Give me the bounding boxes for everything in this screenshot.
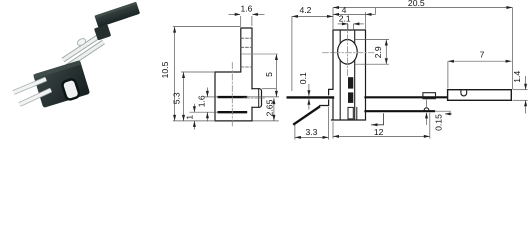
- dim 2.9: [385, 40, 387, 65]
- svg-text:20.5: 20.5: [408, 0, 425, 8]
- 3.3 exts: [294, 125, 296, 140]
- ext boss top right: [262, 88, 277, 90]
- slot inner wall right: [354, 30, 356, 120]
- dim line 5.3: [183, 72, 185, 120]
- inner wall segment lower right: [356, 107, 358, 119]
- ext x333 top: [332, 8, 334, 30]
- svg-text:0.1: 0.1: [298, 72, 308, 84]
- ext pin2 left: [190, 111, 219, 113]
- photo: lead wire upper: [63, 36, 100, 61]
- 12 exts: [332, 122, 334, 139]
- svg-text:12: 12: [374, 127, 384, 137]
- boss inner edge: [258, 89, 260, 108]
- right view arrows: [292, 6, 527, 139]
- 2.9 exts: [354, 39, 389, 41]
- boss center line: [244, 97, 267, 99]
- photo: black connector cap: [90, 2, 144, 41]
- photo: pin lower-left 1: [14, 79, 47, 93]
- photo: crimp ring on lead: [76, 37, 87, 47]
- dim 2.1 segs: [338, 23, 348, 25]
- 0.15 ext lead2 top right: [435, 110, 452, 112]
- ext body bottom right: [253, 120, 279, 122]
- svg-text:5: 5: [264, 72, 274, 77]
- dim 3.3: [295, 136, 329, 138]
- dim 1.6 top segs: [229, 13, 241, 15]
- middle view dim texts: [160, 4, 274, 120]
- horizontal center line: [323, 52, 375, 54]
- svg-text:5.3: 5.3: [171, 92, 181, 104]
- 1.4 exts: [513, 89, 528, 91]
- insert bar bottom section (outlined): [348, 107, 353, 119]
- end terminal bar: [448, 90, 512, 101]
- right view dim texts: [298, 0, 522, 137]
- step leader at body bottom: [372, 114, 384, 125]
- 2.1 exts: [347, 24, 349, 31]
- middle view dimensions: [173, 14, 279, 129]
- dim 12: [333, 135, 430, 137]
- 0.15 leader: [445, 113, 452, 115]
- svg-text:2.9: 2.9: [373, 46, 383, 58]
- notch in terminal bar: [461, 90, 467, 96]
- dim 1 segs: [193, 104, 195, 112]
- svg-text:3.3: 3.3: [306, 127, 318, 137]
- ext x447.9 for 7: [447, 61, 449, 88]
- photo: lead wire lower: [67, 42, 104, 67]
- dark insert bar: [348, 77, 353, 103]
- svg-text:1.4: 1.4: [512, 71, 522, 83]
- photo: slot hole in body: [61, 78, 80, 100]
- photo: pin lower-left 2: [20, 90, 52, 105]
- lead left stub: [288, 96, 333, 98]
- ext pin1 left: [204, 96, 218, 98]
- body outline: [215, 28, 252, 121]
- dim 1.6 segs: [206, 88, 208, 97]
- boss bump right: [252, 89, 262, 108]
- svg-text:0.15: 0.15: [433, 114, 443, 131]
- hole center extension line: [242, 53, 278, 55]
- dim 4 line w/ outside right arrow: [333, 13, 376, 15]
- dim 2.65: [273, 98, 275, 120]
- middle view arrows: [173, 13, 278, 127]
- svg-text:2.1: 2.1: [339, 14, 351, 24]
- dim 0.1 segs: [308, 84, 310, 96]
- dim 7: [448, 60, 512, 62]
- pin 2 (side): [219, 111, 246, 113]
- right view dimensions: [292, 8, 528, 140]
- ext x365.5 top: [365, 12, 367, 29]
- 1.6 top exts: [240, 16, 242, 26]
- ext x512.4: [511, 8, 513, 90]
- ext x291.9: [291, 16, 293, 91]
- svg-text:1.6: 1.6: [196, 95, 206, 107]
- photo: sensor body: [33, 60, 90, 108]
- pin 1 (side): [219, 96, 246, 98]
- hidden hole lines in column: [241, 38, 252, 67]
- ferrule on lead 1: [423, 93, 436, 99]
- svg-text:7: 7: [480, 49, 485, 59]
- dome at lead 2 end: [424, 108, 429, 110]
- dim 20.5: [333, 7, 512, 9]
- svg-text:1: 1: [184, 115, 194, 120]
- vertical center line: [346, 24, 348, 77]
- lead right 1: [366, 96, 448, 98]
- ext top of column: [173, 26, 241, 28]
- sensor hole ellipse: [338, 40, 358, 65]
- svg-text:4.2: 4.2: [300, 5, 312, 15]
- dim line 10.5: [174, 27, 176, 121]
- ext body top: [181, 71, 214, 73]
- dim 4.2 line: [292, 15, 333, 17]
- ext body bottom left: [173, 120, 214, 122]
- 0.15 dome center ext: [426, 100, 428, 108]
- dim 5: [275, 54, 277, 96]
- svg-text:2.65: 2.65: [264, 99, 274, 116]
- tower outline: [320, 30, 366, 120]
- slot inner wall left: [339, 30, 341, 120]
- lead left bent diagonal: [294, 107, 319, 124]
- vertical center line: [231, 63, 233, 128]
- lead right 2: [366, 110, 435, 112]
- dim 1.4 segs: [525, 76, 527, 89]
- ext pin1 right: [246, 96, 279, 98]
- svg-text:1.6: 1.6: [241, 4, 253, 14]
- svg-text:10.5: 10.5: [160, 61, 170, 78]
